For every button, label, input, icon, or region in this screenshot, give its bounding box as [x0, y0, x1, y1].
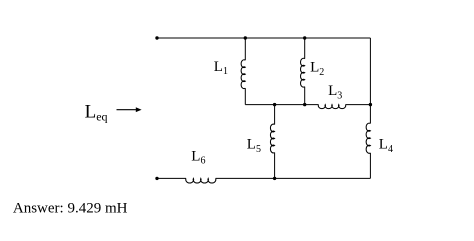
wire middle horizontal right segment [346, 104, 371, 106]
wire L1 branch top lead [244, 38, 246, 60]
inductor L3 (horizontal coil) [318, 105, 345, 109]
wire L2 branch top lead [304, 38, 306, 59]
inductor L1 (vertical coil) [241, 60, 245, 89]
svg-text:Leq: Leq [85, 102, 108, 124]
svg-text:L5: L5 [247, 137, 261, 155]
wire L2 branch bottom lead [304, 87, 306, 105]
arrow current direction [117, 107, 142, 112]
node L5 top junction [273, 103, 276, 106]
wire L5 branch top lead [274, 105, 276, 125]
svg-text:L1: L1 [214, 59, 228, 77]
svg-text:Answer: 9.429 mH: Answer: 9.429 mH [13, 200, 128, 216]
node L2 bottom junction [303, 103, 306, 106]
wire top horizontal [157, 37, 370, 39]
inductor L4 (vertical coil) [366, 123, 370, 153]
inductor L5 (vertical coil) [270, 124, 274, 153]
node L5 bottom junction [273, 177, 276, 180]
wire bottom right segment [216, 177, 371, 179]
inductor L6 (horizontal coil) [186, 178, 216, 183]
node L2 top junction [303, 36, 306, 39]
wire middle horizontal left segment [245, 104, 318, 106]
inductor L2 (vertical coil) [301, 58, 305, 87]
wire L4 branch top lead [369, 105, 371, 124]
wire bottom left segment [157, 177, 186, 179]
svg-text:L2: L2 [310, 60, 324, 78]
wire right vertical upper [369, 38, 371, 105]
svg-text:L3: L3 [328, 83, 342, 101]
node bottom-left terminal [155, 177, 158, 180]
node top-left terminal [155, 36, 158, 39]
node L4 top junction [369, 103, 372, 106]
node L1 top junction [244, 36, 247, 39]
wire L5 branch bottom lead [274, 153, 276, 179]
svg-text:L6: L6 [191, 149, 205, 167]
wire L4 branch bottom lead [369, 153, 371, 179]
wire L1 branch bottom lead [244, 88, 246, 104]
svg-text:L4: L4 [379, 137, 393, 155]
